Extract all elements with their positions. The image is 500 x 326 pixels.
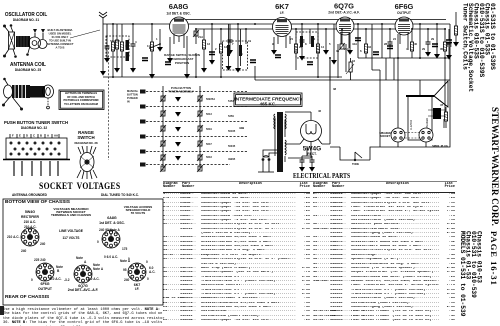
- resistor 35: [443, 42, 446, 51]
- resistor 2: [121, 24, 123, 77]
- svg-text:2nd DET.-A.V.C.-A.F.: 2nd DET.-A.V.C.-A.F.: [328, 11, 359, 15]
- capacitor 7: [228, 40, 233, 42]
- svg-text:AA: AA: [54, 134, 58, 138]
- svg-text:210 A.C.: 210 A.C.: [7, 235, 20, 239]
- power transformer T4: [274, 112, 286, 172]
- svg-text:B: B: [40, 134, 42, 138]
- svg-text:3: 3: [241, 52, 243, 56]
- svg-text:29: 29: [431, 37, 435, 41]
- svg-text:25: 25: [106, 44, 110, 48]
- wire right border: [380, 24, 450, 147]
- push button tuner switch pictorial S1: [3, 134, 70, 176]
- resistor 1: [112, 24, 114, 77]
- tube U4 6F6G: [395, 2, 414, 48]
- svg-text:46: 46: [318, 109, 322, 113]
- svg-text:21C: 21C: [344, 47, 349, 51]
- svg-text:A.C.: A.C.: [149, 270, 155, 274]
- note box: letters on terminals: [59, 90, 104, 110]
- svg-text:2: 2: [215, 47, 217, 51]
- wire rect cathode: [302, 147, 312, 156]
- svg-text:0: 0: [146, 260, 148, 264]
- socket X5 5W4G: [21, 228, 39, 246]
- extra right-edge vertical: [448, 29, 450, 55]
- speaker plug J1: [391, 128, 405, 142]
- svg-text:465 KC.: 465 KC.: [260, 101, 277, 106]
- IF transformer T3 can: [296, 32, 318, 58]
- svg-text:225 240: 225 240: [34, 258, 46, 262]
- svg-text:6A8G: 6A8G: [169, 2, 189, 11]
- intermediate frequency box: [234, 93, 303, 107]
- svg-text:44B: 44B: [239, 126, 244, 130]
- svg-text:240: 240: [40, 242, 46, 246]
- svg-text:44A: 44A: [352, 42, 357, 46]
- svg-text:A: A: [84, 260, 87, 264]
- range switch pictorial S2: [77, 146, 97, 179]
- svg-text:B: B: [57, 269, 60, 273]
- wire pb row6: [146, 164, 230, 166]
- svg-text:TONE: TONE: [352, 162, 359, 166]
- svg-text:E: E: [19, 134, 21, 138]
- push button switch contacts: [10, 142, 61, 156]
- ground 230: [227, 50, 233, 55]
- svg-text:50045: 50045: [228, 144, 236, 148]
- mid-row trimmer grounds: [175, 97, 181, 161]
- svg-text:4: 4: [135, 40, 137, 44]
- wire stage1 verticals: [133, 24, 196, 77]
- push button PB5: [140, 150, 146, 154]
- svg-text:TO USE BUILT-IN: TO USE BUILT-IN: [49, 39, 71, 43]
- svg-text:210 A.C.: 210 A.C.: [24, 225, 37, 229]
- svg-text:MANUAL: MANUAL: [127, 89, 139, 93]
- ground 334: [331, 60, 337, 65]
- wire input verticals: [107, 24, 117, 68]
- svg-text:5643: 5643: [206, 155, 212, 159]
- wire HV secondary: [285, 112, 311, 120]
- push button assembly rail right: [199, 86, 201, 170]
- svg-text:5: 5: [329, 42, 331, 46]
- right margin publisher: [490, 107, 499, 226]
- note built-in antenna: [46, 28, 73, 50]
- wire pb row1: [146, 91, 247, 93]
- wire AVC bus: [103, 76, 342, 78]
- svg-text:Note A: Note A: [93, 267, 104, 271]
- wire output section: [398, 58, 445, 147]
- svg-text:35: 35: [447, 42, 451, 46]
- right margin model block A: [462, 3, 468, 70]
- tube U2 6K7: [273, 2, 292, 48]
- svg-text:5259: 5259: [228, 114, 234, 118]
- svg-text:8: 8: [305, 42, 307, 46]
- svg-text:17: 17: [125, 44, 129, 48]
- right margin page number: [490, 231, 499, 286]
- svg-text:5647: 5647: [206, 142, 212, 146]
- svg-text:19: 19: [248, 39, 252, 43]
- svg-text:01-53S ONLY: 01-53S ONLY: [52, 35, 69, 39]
- socket X2 6K7: [128, 263, 146, 281]
- heading ELECTRICAL PARTS: [293, 172, 350, 180]
- svg-text:0: 0: [31, 278, 33, 282]
- range switch note text: [164, 53, 200, 65]
- push button PB3: [140, 120, 146, 124]
- ground stage1: [130, 68, 136, 73]
- svg-text:34: 34: [368, 45, 372, 49]
- svg-text:50165: 50165: [228, 129, 236, 133]
- heading SOCKET VOLTAGES: [39, 182, 120, 192]
- svg-text:SPKR. PLUG: SPKR. PLUG: [432, 144, 448, 148]
- range switch arm: [150, 44, 160, 48]
- svg-text:IN: IN: [127, 100, 130, 104]
- wire plug link dashed: [405, 133, 419, 139]
- oscillator coil pictorial L2: [3, 24, 47, 58]
- push button PB2: [140, 105, 146, 109]
- speaker SP1: [406, 81, 448, 140]
- trimmer value labels: [206, 97, 236, 161]
- push button PB4: [140, 135, 146, 139]
- svg-text:36: 36: [336, 49, 340, 53]
- wire output section frame: [372, 24, 380, 147]
- wire B-plus rail: [358, 57, 450, 59]
- svg-text:0: 0: [97, 240, 99, 244]
- push button assembly rail left: [162, 86, 164, 170]
- svg-text:56225A: 56225A: [206, 97, 215, 101]
- IF transformer T2 can: [223, 41, 248, 70]
- wire plate-cap rail: [186, 19, 446, 21]
- wire pb row2: [146, 106, 247, 108]
- junction dots: [112, 23, 446, 78]
- antenna coil pictorial L1: [2, 78, 54, 111]
- svg-text:49295: 49295: [228, 157, 236, 161]
- svg-text:-3.2: -3.2: [64, 278, 70, 282]
- svg-text:40: 40: [414, 42, 418, 46]
- svg-text:POSITION: POSITION: [175, 61, 189, 65]
- svg-text:A TO B: A TO B: [56, 46, 65, 50]
- capacitor 27: [300, 40, 305, 42]
- resistor 47: [444, 112, 447, 121]
- svg-text:0 6.0 A.C.: 0 6.0 A.C.: [104, 255, 118, 259]
- svg-text:240 95 Note A: 240 95 Note A: [99, 228, 120, 232]
- svg-text:12: 12: [207, 42, 211, 46]
- wire bottom misc: [330, 147, 380, 160]
- socket X3 6Q7G: [74, 265, 92, 283]
- wire pb row3: [146, 121, 247, 123]
- ground 326: [323, 50, 329, 55]
- svg-text:38: 38: [333, 87, 337, 91]
- svg-text:5613: 5613: [206, 112, 212, 116]
- svg-text:BUILT-IN ANTENNA: BUILT-IN ANTENNA: [48, 28, 73, 32]
- antenna coil winding bars: [126, 40, 130, 50]
- svg-text:14: 14: [321, 45, 325, 49]
- svg-text:A: A: [47, 134, 49, 138]
- ground 437: [434, 54, 440, 59]
- svg-text:47: 47: [440, 103, 444, 107]
- svg-text:14: 14: [312, 37, 316, 41]
- right margin component chain: [455, 12, 457, 42]
- wire stage2 verticals: [212, 24, 246, 77]
- ground 274: [271, 50, 277, 55]
- svg-text:6: 6: [360, 49, 362, 53]
- svg-text:USED ON MODEL: USED ON MODEL: [49, 32, 72, 36]
- trimmer 21C: [339, 43, 345, 50]
- resistor 23: [294, 44, 297, 53]
- wire AC plug hookup: [263, 150, 277, 157]
- svg-text:13: 13: [224, 45, 228, 49]
- misc capacitor marks: [142, 38, 452, 65]
- wire antenna lead: [102, 24, 104, 71]
- svg-text:21: 21: [290, 37, 294, 41]
- ground antenna: [100, 71, 106, 76]
- socket voltage labels: [7, 225, 155, 282]
- svg-text:29: 29: [422, 47, 426, 51]
- capacitor 28: [388, 42, 393, 44]
- ground 12: [201, 68, 207, 73]
- tube U1 6A8G: [166, 2, 190, 48]
- antenna coil T1 can (dashed): [106, 36, 129, 57]
- resistor 40: [410, 42, 413, 51]
- push button PB1: [140, 90, 146, 94]
- socket X1 6A8G: [102, 230, 120, 248]
- ground 428: [425, 52, 431, 57]
- svg-text:28: 28: [384, 42, 388, 46]
- svg-text:SOCKET: SOCKET: [380, 135, 391, 138]
- svg-text:D: D: [26, 134, 28, 138]
- svg-text:240: 240: [124, 278, 130, 282]
- svg-text:I.F.: I.F.: [280, 11, 285, 15]
- capacitor 29: [426, 42, 431, 44]
- antenna symbol: [99, 12, 107, 24]
- svg-text:6Q7G: 6Q7G: [334, 2, 354, 11]
- svg-text:240: 240: [21, 249, 27, 253]
- svg-text:40: 40: [406, 47, 410, 51]
- resistor 11: [150, 42, 153, 51]
- svg-text:11: 11: [147, 44, 150, 48]
- svg-text:OUTPUT: OUTPUT: [397, 11, 412, 15]
- wire AF coupling verticals: [255, 44, 394, 80]
- wire built-in antenna leader: [70, 30, 100, 38]
- svg-text:F: F: [12, 134, 14, 138]
- svg-text:24: 24: [393, 37, 397, 41]
- svg-text:6.0 A.C.: 6.0 A.C.: [50, 277, 62, 281]
- wire second rail: [196, 28, 446, 30]
- ground 212: [209, 60, 215, 65]
- component number labels: [106, 35, 451, 121]
- ground 350: [347, 50, 353, 55]
- svg-text:56225A: 56225A: [110, 39, 120, 43]
- svg-text:23: 23: [299, 45, 303, 49]
- svg-text:RECT.: RECT.: [307, 152, 316, 156]
- svg-text:16: 16: [352, 59, 356, 63]
- resistor 14: [316, 44, 319, 53]
- trimmer 21A: [193, 30, 199, 37]
- speaker socket J2: [379, 128, 448, 148]
- socket X4 6F6G: [36, 263, 54, 281]
- filter choke / field wires: [255, 58, 450, 80]
- filter capacitors C45 C46: [299, 156, 315, 172]
- svg-text:U-12504: U-12504: [409, 119, 413, 130]
- svg-text:Note: Note: [76, 256, 83, 260]
- wire pb row4: [146, 136, 247, 138]
- wire stage4 verticals: [382, 24, 445, 58]
- AC plug P1: [258, 156, 274, 172]
- svg-text:0: 0: [128, 257, 130, 261]
- resistor 34: [364, 44, 367, 53]
- svg-text:ANTENNA CONNECT: ANTENNA CONNECT: [46, 42, 73, 46]
- trimmers on left rail: [160, 95, 166, 102]
- wire rectifier to transformer: [285, 58, 330, 158]
- dashed gang tuning link: [108, 48, 110, 160]
- svg-text:6K7: 6K7: [275, 2, 289, 11]
- svg-text:5619: 5619: [206, 127, 212, 131]
- text manual push button: [127, 89, 139, 104]
- tube U5 5W4G rectifier: [300, 121, 322, 157]
- svg-text:7: 7: [232, 42, 234, 46]
- svg-text:95: 95: [123, 268, 127, 272]
- svg-text:PUSHED: PUSHED: [127, 96, 138, 100]
- capacitor 4: [131, 44, 136, 46]
- push button PB6: [140, 163, 146, 167]
- corner mark: [0, 306, 4, 315]
- resistor 13: [219, 44, 222, 53]
- wire stage3 verticals: [274, 24, 366, 77]
- ground 238: [235, 68, 241, 73]
- svg-text:C: C: [33, 134, 35, 138]
- svg-text:0: 0: [147, 277, 149, 281]
- volume control R44: [346, 58, 354, 80]
- svg-text:BUTTON: BUTTON: [127, 93, 138, 97]
- svg-text:1: 1: [156, 37, 158, 41]
- rule above parts list: [163, 181, 457, 183]
- right margin model block B: [459, 231, 465, 316]
- ground 302: [299, 56, 305, 61]
- trimmers on right rail: [197, 95, 203, 102]
- wire top rail: [103, 23, 450, 25]
- text push button assembly: [168, 86, 194, 94]
- svg-text:35: 35: [440, 47, 444, 51]
- svg-text:6.0 A.C.: 6.0 A.C.: [88, 277, 100, 281]
- tube U3 6Q7G: [328, 2, 359, 49]
- notes text: [3, 308, 165, 326]
- svg-text:1st DET. & OSC.: 1st DET. & OSC.: [166, 12, 190, 16]
- svg-text:6F6G: 6F6G: [395, 2, 414, 11]
- left pictorial captions: [5, 13, 47, 18]
- output transformer T5: [428, 108, 446, 119]
- switch letter labels: [12, 134, 58, 138]
- svg-text:30: 30: [273, 117, 277, 121]
- wire pb row5: [146, 151, 247, 153]
- svg-text:175: 175: [122, 247, 128, 251]
- tone control switch SW2: [340, 147, 370, 166]
- resistor 12: [203, 29, 205, 68]
- socket voltages panel box: [3, 199, 163, 305]
- svg-text:21A: 21A: [198, 35, 203, 39]
